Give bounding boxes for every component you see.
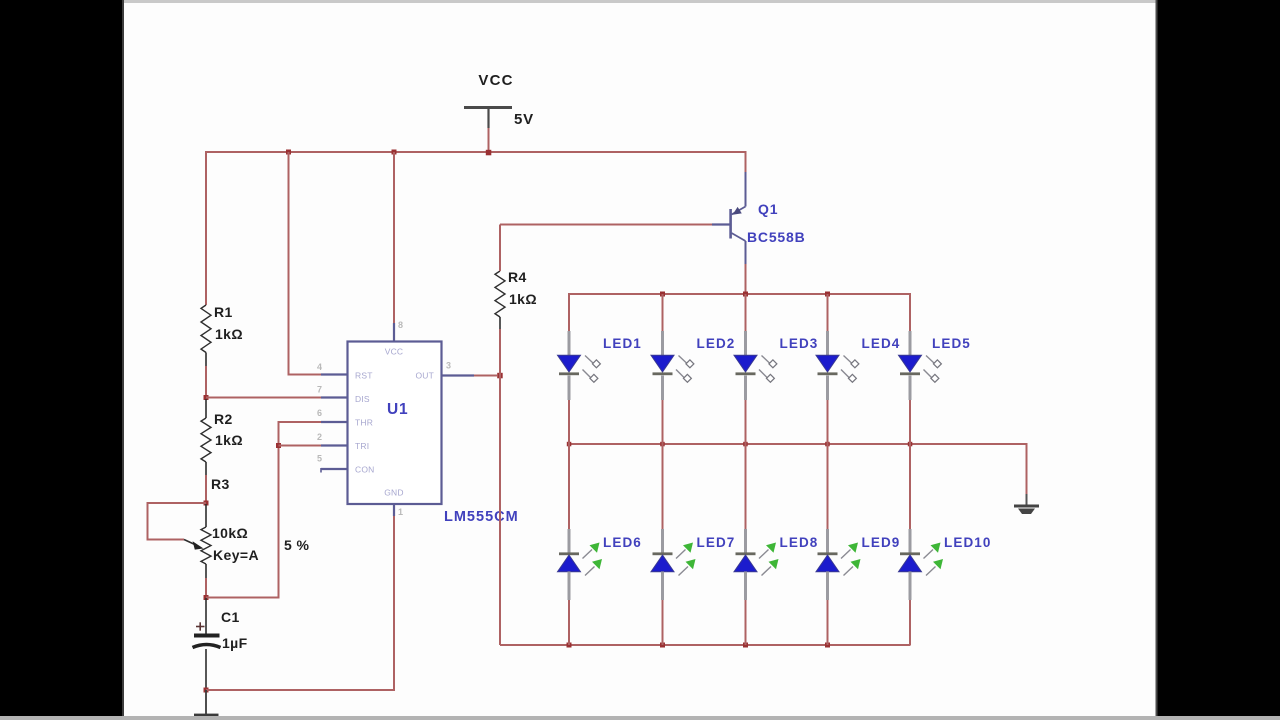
svg-text:VCC: VCC <box>478 72 513 89</box>
node bottom bus j2 <box>660 643 665 648</box>
resistor R1 <box>201 304 243 366</box>
resistor R2 <box>201 399 243 475</box>
wire bus to U1 VCC pin <box>393 152 395 323</box>
wire U1 GND pin down <box>393 516 395 691</box>
wire top VCC bus <box>205 151 747 153</box>
node bus-VCC junction <box>486 150 492 156</box>
svg-text:3: 3 <box>446 361 451 371</box>
wire bus to Q1 emitter <box>745 151 747 172</box>
svg-text:R3: R3 <box>211 476 230 492</box>
svg-text:LED5: LED5 <box>932 336 971 351</box>
svg-text:LED4: LED4 <box>862 336 901 351</box>
U1 pin numbers <box>317 320 451 517</box>
LED6 <box>558 444 642 645</box>
ground left <box>194 690 219 720</box>
LED10 <box>899 444 992 645</box>
node top bus j2 <box>660 292 665 297</box>
vcc symbol VCC 5V <box>464 72 534 152</box>
svg-text:Key=A: Key=A <box>213 547 259 563</box>
node mid bus j3 <box>743 442 748 447</box>
svg-text:LED10: LED10 <box>944 535 992 550</box>
node top bus j4 <box>825 292 830 297</box>
svg-text:5V: 5V <box>514 111 534 128</box>
svg-text:VCC: VCC <box>385 347 404 357</box>
svg-text:R1: R1 <box>214 304 233 320</box>
LED2 <box>651 294 735 444</box>
node bus-RST junction <box>286 150 291 155</box>
svg-text:LED8: LED8 <box>780 535 819 550</box>
LED8 <box>734 444 818 645</box>
wire R3 wiper loop <box>148 503 207 540</box>
svg-text:Q1: Q1 <box>758 201 778 217</box>
wire bottom bus corner right <box>909 600 911 645</box>
node mid bus j1 <box>567 442 572 447</box>
LED4 <box>816 294 900 444</box>
wire LED middle bus <box>569 443 1028 445</box>
svg-text:5: 5 <box>317 454 322 464</box>
wire node to THR <box>206 422 321 598</box>
wire DIS to U1 <box>206 397 321 399</box>
wire TRI to U1 <box>279 445 322 447</box>
wire LED bottom bus <box>500 644 911 646</box>
node C1/GND junction <box>204 688 209 693</box>
bottom grey strip <box>0 716 1280 720</box>
wire R1 branch down from bus <box>205 151 207 305</box>
svg-text:LM555CM: LM555CM <box>444 509 519 525</box>
svg-text:LED7: LED7 <box>697 535 736 550</box>
right letterbox bar <box>1156 0 1280 720</box>
svg-text:BC558B: BC558B <box>747 229 806 245</box>
svg-text:2: 2 <box>317 432 322 442</box>
svg-text:C1: C1 <box>221 609 240 625</box>
wire LED top bus <box>569 293 911 295</box>
svg-text:7: 7 <box>317 385 322 395</box>
svg-text:R2: R2 <box>214 411 233 427</box>
LED3 <box>734 294 818 444</box>
node bottom bus j4 <box>825 643 830 648</box>
LED9 <box>816 444 900 645</box>
svg-text:CON: CON <box>355 465 375 475</box>
transistor Q1 BC558B <box>712 172 806 264</box>
svg-text:LED1: LED1 <box>603 336 642 351</box>
svg-text:GND: GND <box>384 488 404 498</box>
node OUT junction <box>497 373 503 379</box>
wire OUT to node <box>474 375 497 377</box>
node top bus j3 <box>743 292 748 297</box>
svg-text:THR: THR <box>355 418 373 428</box>
svg-text:8: 8 <box>398 320 403 330</box>
svg-text:R4: R4 <box>508 269 527 285</box>
resistor R4 <box>495 225 537 376</box>
wire R2 bottom <box>205 475 207 503</box>
wire top bus corner left <box>568 293 570 330</box>
node TRI tap junction <box>276 443 281 448</box>
capacitor C1 1uF <box>193 598 248 690</box>
LED1 <box>558 294 642 444</box>
node mid bus j4 <box>825 442 830 447</box>
node bottom bus j3 <box>743 643 748 648</box>
wire middle bus to ground <box>1026 444 1028 494</box>
svg-text:10kΩ: 10kΩ <box>212 525 248 541</box>
node R1/R2/DIS junction <box>204 395 209 400</box>
svg-text:DIS: DIS <box>355 394 370 404</box>
svg-text:5 %: 5 % <box>284 537 309 553</box>
svg-text:LED3: LED3 <box>780 336 819 351</box>
node bus-U1VCC junction <box>392 150 397 155</box>
svg-text:6: 6 <box>317 408 322 418</box>
label LM555CM <box>444 509 519 525</box>
svg-text:LED9: LED9 <box>862 535 901 550</box>
wire C1 to U1 GND <box>206 689 394 691</box>
wire bus to RST <box>289 152 322 375</box>
LED5 <box>899 294 971 444</box>
op-amp U1 LM555CM body <box>348 342 442 505</box>
wire top bus corner right <box>909 293 911 330</box>
svg-text:1kΩ: 1kΩ <box>215 432 243 448</box>
node R3/C1/THR junction <box>204 595 209 600</box>
svg-text:RST: RST <box>355 371 373 381</box>
left letterbox bar <box>0 0 124 720</box>
wire R1 bottom to node <box>205 366 207 398</box>
wire OUT node down to bottom bus <box>499 376 501 646</box>
ground right <box>1014 494 1039 514</box>
node mid bus j5 <box>908 442 913 447</box>
svg-text:1: 1 <box>398 507 403 517</box>
svg-text:TRI: TRI <box>355 441 369 451</box>
potentiometer R3 10k <box>184 476 309 578</box>
svg-text:1kΩ: 1kΩ <box>509 291 537 307</box>
svg-text:OUT: OUT <box>415 371 434 381</box>
svg-text:1µF: 1µF <box>222 635 248 651</box>
node R2/R3 junction <box>204 501 209 506</box>
svg-text:LED6: LED6 <box>603 535 642 550</box>
svg-text:LED2: LED2 <box>697 336 736 351</box>
U1 pin stubs <box>321 323 474 516</box>
wire R4 to Q1 base <box>500 224 712 226</box>
LED7 <box>651 444 735 645</box>
svg-text:4: 4 <box>317 362 322 372</box>
wire Q1 collector to LED bus <box>745 264 747 294</box>
node bottom bus j1 <box>567 643 572 648</box>
node mid bus j2 <box>660 442 665 447</box>
svg-text:1kΩ: 1kΩ <box>215 326 243 342</box>
svg-text:U1: U1 <box>387 401 408 418</box>
wire R3 bottom to node <box>205 578 207 598</box>
